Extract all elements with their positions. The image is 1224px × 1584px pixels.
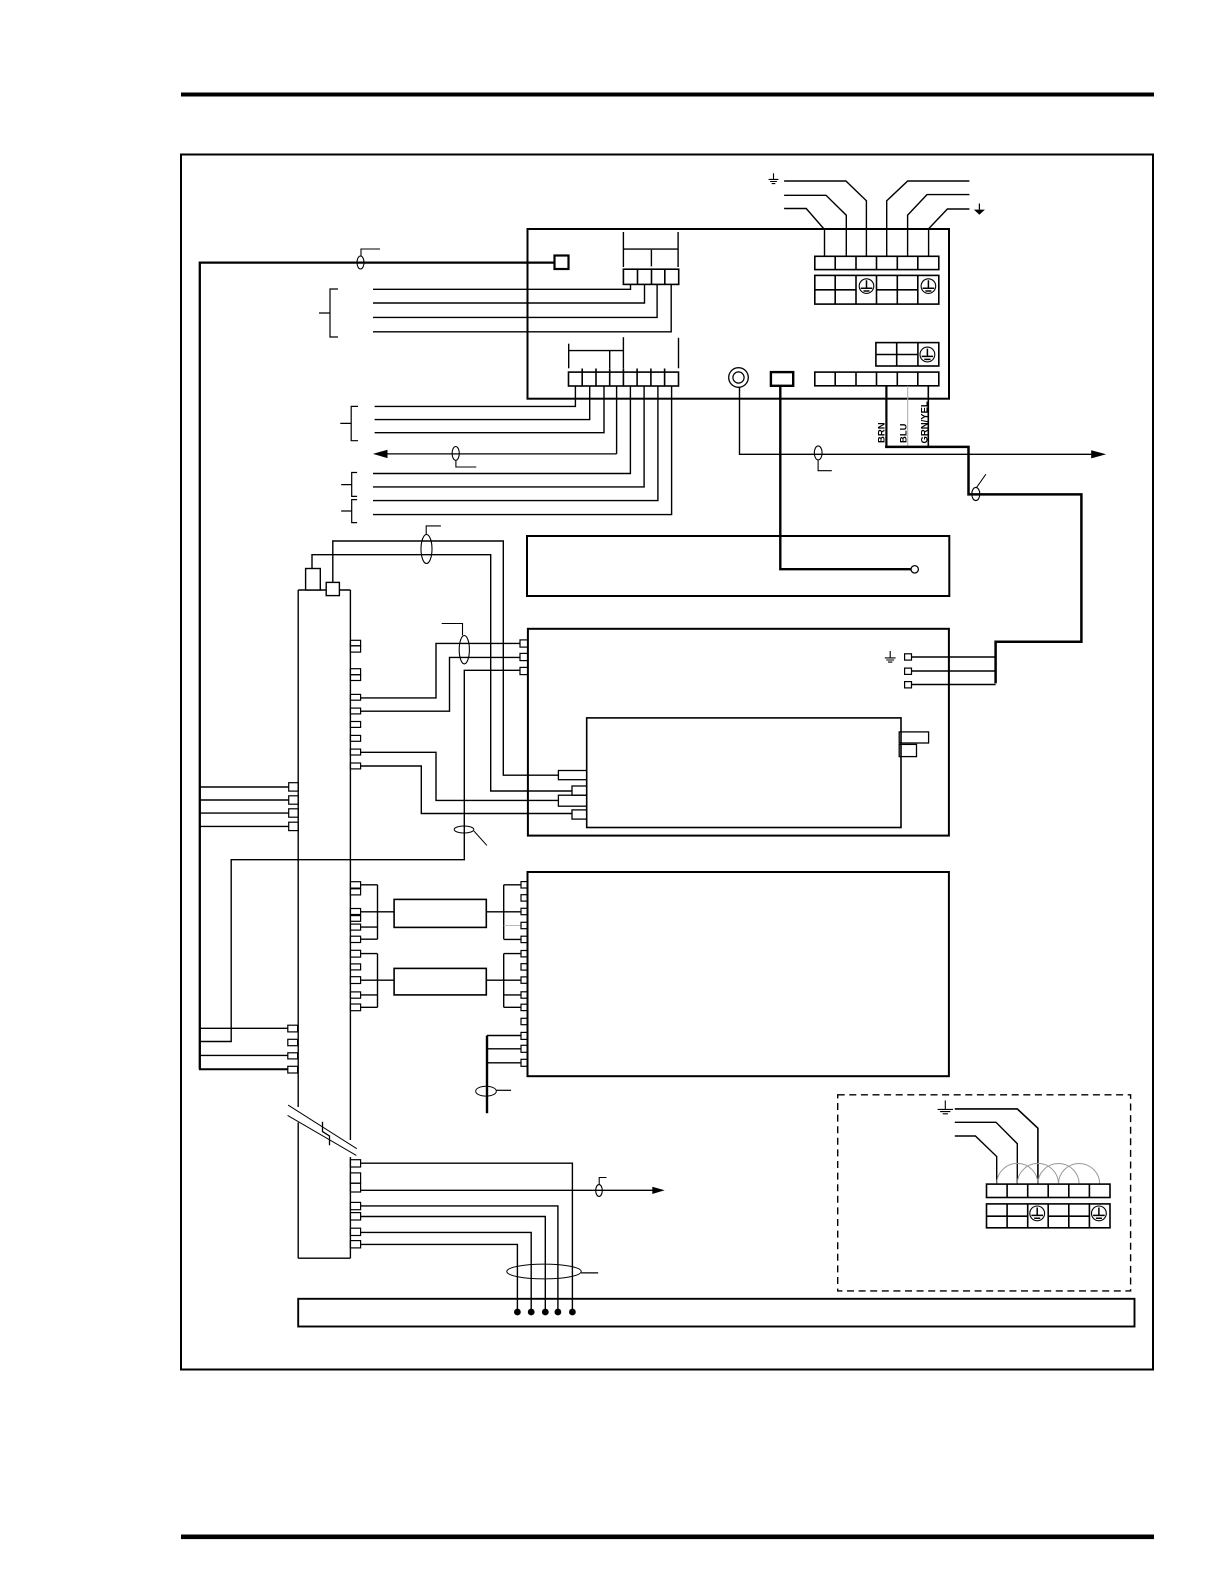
link tab5-bar2 — [361, 953, 378, 955]
loop marker on signal wire left — [452, 447, 459, 461]
break symbol across connector strip — [288, 1105, 357, 1155]
wire tab3 to power board pin 1 — [361, 643, 520, 698]
solder dot 3 on bus bar — [542, 1309, 549, 1316]
interface board left tab 5 — [521, 936, 528, 942]
bold terminal box on control board bottom — [771, 372, 793, 386]
faint link bar-boxtab4 — [504, 925, 521, 927]
strip X1 mid tab 5 — [350, 950, 360, 957]
flag of right signal loop — [818, 460, 832, 471]
strip X1 bottom tab pair 2b — [350, 1183, 360, 1192]
flat loop marker on long pin3 wire — [454, 826, 474, 833]
link bar2-boxtab6 — [504, 953, 521, 955]
link bar2-boxtab9 — [504, 994, 521, 996]
left link bar for choke FL2 — [377, 954, 379, 1008]
strip X1 right tab 6 — [350, 735, 360, 741]
diagram border frame — [181, 155, 1153, 1370]
dashed enclosure wire 2 — [955, 1122, 1018, 1184]
link tab6-bar — [361, 938, 378, 940]
connector block P2 on strip top — [326, 582, 339, 595]
page top rule — [181, 93, 1154, 97]
protective earth symbol in TB1 cell6 — [921, 279, 936, 294]
wire from E1 to bus — [912, 656, 996, 658]
bracket for harness A — [319, 289, 338, 337]
TB1 field wiring fan: wire 2 — [784, 195, 846, 256]
link tab5-bar — [361, 926, 378, 928]
strip X1 bottom tab pair 3a — [350, 1202, 360, 1209]
flag of supply wire loop marker — [361, 249, 380, 256]
link tab7-bar2 and FL2 input — [361, 979, 395, 981]
chassis arrow symbol at supply fan right — [974, 204, 985, 215]
strip X1 left pin square M3 — [288, 1053, 298, 1059]
page bottom rule — [181, 1535, 1154, 1540]
interface board left tab 8 — [521, 977, 528, 983]
strip X1 left pin square L4 — [289, 822, 299, 830]
wire harness C1 from J3 pin5 — [373, 386, 630, 474]
right arrowhead of sensor wire — [1091, 450, 1106, 458]
loop marker on signal wire right — [814, 446, 822, 460]
antenna wire to tab 14 — [487, 1062, 521, 1064]
outgoing signal wire with left arrow — [378, 453, 617, 455]
connector J3 internal links — [569, 337, 679, 368]
FL2 output wire — [486, 979, 521, 981]
control board outline U1 — [528, 229, 950, 399]
power board inner module outline — [587, 718, 901, 828]
BLU wire from TB3 pin5 — [907, 386, 909, 446]
strip X1 mid tab pair 2b — [350, 916, 360, 922]
wire from E2 to bus — [912, 670, 996, 672]
cable bundle ellipse over bottom wires — [507, 1264, 581, 1279]
slash of bus loop marker — [977, 474, 986, 487]
bracket for harness C lower pair — [341, 500, 357, 523]
interface board left tab 10 — [521, 1004, 528, 1010]
earth ground symbol at power board pins — [885, 651, 896, 662]
crossing wire arcs over terminal — [997, 1163, 1100, 1184]
bottom wire 5 to bus bar dot 2 — [361, 1232, 532, 1312]
auxiliary terminal block TB2 (3x2 grid) on control board — [876, 343, 939, 366]
external terminal block row2 (6x2 grid) — [987, 1204, 1111, 1228]
lower interface board outline — [528, 872, 949, 1076]
strip X1 left pin square M4 — [288, 1066, 298, 1073]
strip X1 bottom tab pair 2a — [350, 1173, 360, 1183]
connector J2 4-cell terminal strip — [623, 269, 678, 284]
buzzer/sensor double circle on control board — [729, 368, 749, 388]
earth pin square E2 inside power board — [905, 668, 912, 674]
power board outline — [528, 629, 949, 836]
link tab8-bar2 — [361, 994, 378, 996]
mains terminal block TB1 row1 (6 cells) on control board — [815, 256, 939, 269]
svg-text:BRN: BRN — [877, 422, 888, 443]
wire harness A3 from J2 pin3 — [373, 284, 657, 317]
interface board left tab 9 — [521, 992, 528, 998]
TB1 field wiring fan: wire 3 — [784, 181, 866, 256]
antenna wire to tab 12 — [487, 1035, 521, 1037]
power board left pin tab 2 — [520, 653, 528, 660]
bottom wire 1 to bus bar dot 5 — [361, 1163, 573, 1312]
strip X1 bottom tab pair 4a — [350, 1228, 360, 1235]
thick bus end wire to M4 — [199, 1068, 288, 1070]
connector J3 8-cell terminal strip — [569, 369, 679, 387]
strip X1 right tab pair 2a — [350, 669, 360, 675]
display board outline — [527, 536, 949, 596]
protective earth symbol in external block cell3 — [1030, 1206, 1045, 1221]
flag of P1/P2 loop marker — [426, 526, 441, 535]
protective earth symbol in TB2 cell3 — [920, 347, 935, 362]
strip X1 right tab 5 — [350, 722, 360, 728]
open terminal circle at display board — [911, 566, 918, 573]
solder dot 2 on bus bar — [528, 1309, 535, 1316]
power board left pin tab 1 — [520, 640, 528, 647]
wire tab4 to power board pin 2 — [361, 657, 520, 711]
chassis bus bar — [298, 1299, 1134, 1327]
interface board left tab 6 — [521, 951, 528, 957]
interface board left tab 3 — [521, 908, 528, 914]
connector block P1 on strip top — [306, 569, 321, 591]
wire harness B1 from J3 pin1 — [375, 386, 576, 406]
strip X1 left pin square L1 — [289, 783, 299, 791]
tail of cable bundle ellipse — [581, 1272, 598, 1274]
interface board left tab 12 — [521, 1032, 528, 1039]
BRN wire from TB3 pin4 — [885, 386, 887, 447]
strip X1 right tab 7 — [350, 749, 360, 755]
interface board left tab 14 — [521, 1059, 528, 1066]
strip X1 mid tab 8 — [350, 992, 360, 998]
wire harness B2 from J3 pin2 — [375, 386, 590, 420]
protective earth symbol in TB1 cell3 — [859, 279, 874, 294]
FL1 output wire — [486, 911, 521, 913]
strip X1 mid tab 3 — [350, 924, 360, 930]
flag of power pin wires loop — [442, 624, 463, 636]
strip X1 left pin square M1 — [288, 1025, 298, 1032]
interface board left tab 2 — [521, 895, 528, 901]
link bar2-boxtab10 — [504, 1006, 521, 1008]
inner module right pin F — [899, 744, 916, 756]
strip X1 mid tab pair 2a — [350, 909, 360, 915]
flag of bottom wire 2 loop — [599, 1178, 606, 1185]
thick mains bus from BRN wire to junction — [885, 447, 1081, 684]
inner module left pin B — [572, 786, 587, 795]
dashed enclosure wire 3 — [955, 1136, 997, 1184]
output terminal strip TB3 (6 cells) on control board — [815, 372, 939, 386]
strip X1 left pin square M2 — [288, 1039, 298, 1045]
inner module left pin C (wide) — [558, 795, 586, 806]
protective earth symbol in external block cell6 — [1092, 1206, 1107, 1221]
strip X1 right tab 8 — [350, 763, 360, 769]
wire bus to L3 — [201, 812, 289, 814]
choke FL2 — [394, 968, 486, 995]
tail of antenna loop marker — [496, 1089, 511, 1091]
strip X1 mid tab 6 — [350, 964, 360, 970]
strip X1 right tab pair 1b — [350, 646, 360, 652]
wire harness A4 from J2 pin4 — [373, 284, 671, 331]
wire harness A1 from J2 pin1 — [373, 284, 631, 289]
bottom wire 4 to bus bar dot 3 — [361, 1217, 546, 1313]
right link bar for FL1 — [503, 885, 505, 939]
wire J3 pin4 to outgoing arrow line — [616, 386, 618, 454]
strip X1 bottom tab pair 4b — [350, 1241, 360, 1248]
earth ground symbol in dashed enclosure — [938, 1100, 953, 1113]
wire harness C2 from J3 pin6 — [373, 386, 644, 487]
TB1 field wiring fan: wire 5 — [908, 195, 970, 257]
wire from double circle turning right into arrow signal wire — [740, 387, 1093, 454]
bottom wire 3 to bus bar dot 4 — [361, 1206, 558, 1312]
strip X1 right tab pair 1a — [350, 640, 360, 646]
flat loop marker on antenna bar — [476, 1086, 497, 1096]
wire bus to M1 — [201, 1027, 288, 1029]
dashed enclosure wire 1 — [955, 1109, 1038, 1184]
solder dot 1 on bus bar — [514, 1309, 521, 1316]
wire from P1 to power board inner module pin B — [312, 555, 572, 791]
loop marker on bottom wire 2 — [596, 1185, 603, 1197]
interface board left tab 4 — [521, 922, 528, 928]
bracket for harness C upper pair — [341, 473, 357, 497]
TB1 field wiring fan: wire 4 — [887, 181, 970, 256]
solder dot 5 on bus bar — [569, 1309, 576, 1316]
loop marker on power board pin wires — [459, 636, 469, 664]
strip X1 right tab 4 — [350, 708, 360, 714]
solder dot 4 on bus bar — [555, 1309, 562, 1316]
bottom wire 6 to bus bar dot 1 — [361, 1244, 518, 1312]
external terminal block row1 (6 cells) — [987, 1184, 1111, 1197]
link tab3-bar and FL1 input — [361, 911, 395, 913]
inner module right pin E (wide) — [899, 732, 928, 743]
wire harness B3 from J3 pin3 — [375, 386, 604, 433]
TB1 field wiring fan: wire 6 — [929, 209, 970, 256]
TB1 field wiring fan: wire 1 — [784, 209, 824, 257]
loop marker on supply wire — [357, 256, 364, 269]
inner module left pin D — [572, 810, 587, 819]
wire harness C3 from J3 pin7 — [373, 386, 658, 501]
choke FL1 — [394, 899, 486, 927]
connector J2 housing (2-cell upper part) — [623, 232, 678, 267]
wire bus to M3 — [201, 1054, 288, 1056]
left link bar for choke FL1 — [377, 885, 379, 939]
main harness connector strip X1 (tall) — [298, 590, 350, 1258]
link tab1-bar — [361, 884, 378, 886]
strip X1 bottom tab 1 — [350, 1160, 360, 1167]
power board left pin tab 3 — [520, 667, 528, 674]
strip X1 mid tab 4 — [350, 936, 360, 942]
strip X1 left pin square L2 — [289, 796, 299, 804]
wire bus to L2 — [201, 799, 289, 801]
terminal square for mains supply wire on control board — [555, 256, 569, 270]
link bar-boxtab5 — [504, 938, 521, 940]
earth pin square E3 inside power board — [905, 682, 912, 688]
strip X1 right tab 3 — [350, 694, 360, 700]
mains terminal block TB1 row2 (6x2 grid) — [815, 275, 939, 304]
strip X1 left pin square L3 — [289, 809, 299, 817]
earth ground symbol at supply fan — [769, 173, 779, 183]
left arrowhead — [373, 450, 388, 458]
svg-text:GRN/YEL: GRN/YEL — [920, 401, 931, 443]
link bar-boxtab1 — [504, 884, 521, 886]
right link bar for FL2 — [503, 954, 505, 1008]
svg-text:BLU: BLU — [899, 423, 910, 443]
bracket for harness B — [340, 406, 358, 440]
GRN/YEL wire from TB3 pin6 — [927, 386, 929, 447]
interface board left tab 7 — [521, 964, 528, 970]
link tab9-bar2 — [361, 1006, 378, 1008]
strip X1 mid tab pair 1a — [350, 882, 360, 888]
wire harness C4 from J3 pin8 — [373, 386, 672, 515]
interface board left tab 11 — [521, 1018, 528, 1024]
inner module left pin A (wide) — [558, 771, 586, 780]
flag of left signal loop — [456, 460, 476, 467]
wire harness A2 from J2 pin2 — [373, 284, 645, 303]
strip X1 mid tab 7 — [350, 977, 360, 984]
wire bus to L4 — [201, 825, 289, 827]
long wire from power board pin 3 to X1 area and left bus — [201, 670, 521, 1041]
wire from E3 to bus — [912, 684, 996, 686]
wire tab7 to inner module pin C — [361, 752, 559, 800]
bottom wire 2 signal with arrow — [361, 1189, 654, 1191]
loop marker on P1/P2 wires — [421, 535, 432, 564]
wire tab8 to inner module pin D — [361, 766, 572, 814]
earth pin square E1 inside power board — [905, 654, 912, 660]
interface board left tab 13 — [521, 1045, 528, 1052]
strip X1 mid tab pair 1b — [350, 889, 360, 895]
arrowhead of bottom wire 2 — [652, 1187, 664, 1194]
strip X1 bottom tab pair 3b — [350, 1213, 360, 1220]
antenna wire to tab 13 — [487, 1048, 521, 1050]
interface board left tab 1 — [521, 882, 528, 888]
switch loop marker on thick bus — [972, 487, 980, 500]
optional external unit dashed enclosure — [838, 1095, 1131, 1291]
strip X1 mid tab 9 — [350, 1004, 360, 1011]
wire from P2 to power board inner module pin A — [333, 541, 559, 775]
wire bus to L1 — [201, 786, 289, 788]
antenna bar (thick) — [486, 1036, 488, 1114]
slash of flat loop marker — [474, 831, 487, 845]
strip X1 right tab pair 2b — [350, 675, 360, 681]
thick wire from bold terminal box into display board — [780, 386, 910, 569]
thick supply wire from control board to left bus — [200, 263, 555, 1070]
